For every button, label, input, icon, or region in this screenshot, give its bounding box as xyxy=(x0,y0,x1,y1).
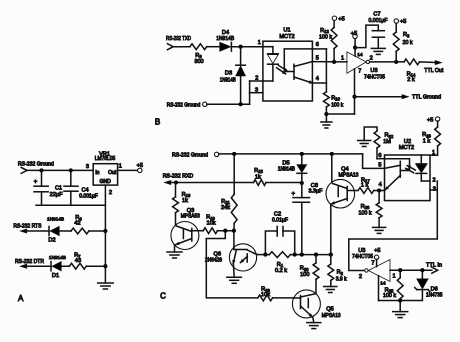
svg-text:D3: D3 xyxy=(225,71,232,77)
svg-text:D2: D2 xyxy=(48,238,55,244)
svg-text:+: + xyxy=(291,191,295,197)
svg-text:20 k: 20 k xyxy=(403,40,413,46)
svg-text:R12: R12 xyxy=(320,28,329,34)
svg-text:RS-232 RXD: RS-232 RXD xyxy=(163,173,194,179)
svg-text:GND: GND xyxy=(100,179,112,185)
svg-text:In: In xyxy=(95,170,99,176)
svg-text:1: 1 xyxy=(119,163,122,169)
svg-text:U1: U1 xyxy=(283,28,290,34)
svg-text:1: 1 xyxy=(341,55,344,61)
svg-text:74HCT05: 74HCT05 xyxy=(352,254,373,260)
svg-text:2N6426: 2N6426 xyxy=(205,257,222,263)
svg-text:+5: +5 xyxy=(351,31,357,37)
svg-text:6: 6 xyxy=(378,153,381,159)
svg-text:42: 42 xyxy=(74,221,80,227)
svg-text:Q5: Q5 xyxy=(326,306,333,312)
svg-text:+5: +5 xyxy=(400,19,406,25)
svg-text:C: C xyxy=(160,292,166,301)
svg-text:TTL In: TTL In xyxy=(426,263,442,269)
svg-text:+5: +5 xyxy=(338,16,344,22)
svg-text:LM78L05: LM78L05 xyxy=(95,156,116,162)
svg-text:R15: R15 xyxy=(254,168,263,174)
svg-text:43: 43 xyxy=(75,258,81,264)
svg-text:4: 4 xyxy=(379,182,382,188)
svg-text:2: 2 xyxy=(359,274,362,280)
svg-text:R3: R3 xyxy=(403,32,410,38)
svg-text:1N914B: 1N914B xyxy=(220,78,236,84)
svg-text:0.2 k: 0.2 k xyxy=(275,268,287,274)
svg-text:RS-232 DTR: RS-232 DTR xyxy=(15,259,44,265)
svg-text:2: 2 xyxy=(109,190,112,196)
svg-text:+5: +5 xyxy=(427,117,433,123)
svg-text:2: 2 xyxy=(370,55,373,61)
svg-text:R28: R28 xyxy=(361,204,370,210)
svg-text:300: 300 xyxy=(194,59,203,65)
svg-text:100 k: 100 k xyxy=(319,34,332,40)
svg-text:100 k: 100 k xyxy=(331,103,343,109)
svg-text:0.001µF: 0.001µF xyxy=(79,193,98,199)
svg-text:MPSA13: MPSA13 xyxy=(322,313,341,319)
svg-text:C7: C7 xyxy=(373,12,380,18)
svg-text:1 k: 1 k xyxy=(361,183,369,189)
svg-text:1 k: 1 k xyxy=(423,139,431,145)
svg-text:C1: C1 xyxy=(55,185,62,191)
svg-text:Out: Out xyxy=(108,170,117,176)
svg-text:MCT2: MCT2 xyxy=(279,34,294,40)
svg-text:1N914B: 1N914B xyxy=(216,36,234,42)
svg-text:+5: +5 xyxy=(374,248,380,254)
svg-text:24k: 24k xyxy=(221,205,230,211)
svg-text:5: 5 xyxy=(316,55,319,61)
svg-text:14: 14 xyxy=(380,280,386,286)
svg-text:D1: D1 xyxy=(52,273,59,279)
svg-text:RS-232 Ground: RS-232 Ground xyxy=(167,102,201,108)
svg-text:4: 4 xyxy=(316,76,319,82)
svg-text:5: 5 xyxy=(378,163,381,169)
svg-text:R10: R10 xyxy=(331,95,340,101)
svg-text:3: 3 xyxy=(86,164,89,170)
svg-text:100 k: 100 k xyxy=(383,293,396,299)
svg-text:7: 7 xyxy=(358,69,361,75)
svg-text:1: 1 xyxy=(258,40,261,46)
svg-text:3.3µF: 3.3µF xyxy=(309,189,324,195)
svg-text:1N4735: 1N4735 xyxy=(426,293,443,299)
svg-text:B: B xyxy=(155,118,160,127)
svg-text:D6: D6 xyxy=(431,286,438,292)
svg-text:RS-232 Ground: RS-232 Ground xyxy=(18,161,54,167)
svg-text:TTL Ground: TTL Ground xyxy=(412,95,441,101)
svg-text:2: 2 xyxy=(255,76,258,82)
svg-text:1k: 1k xyxy=(182,198,188,204)
svg-text:R23: R23 xyxy=(422,132,431,138)
svg-text:+5: +5 xyxy=(137,163,143,169)
svg-text:1k: 1k xyxy=(255,175,261,181)
svg-text:14: 14 xyxy=(357,52,363,58)
svg-text:1N914B: 1N914B xyxy=(278,166,296,172)
svg-text:6: 6 xyxy=(316,42,319,48)
svg-text:R2: R2 xyxy=(337,270,344,276)
svg-text:100: 100 xyxy=(300,272,309,278)
svg-text:10k: 10k xyxy=(206,220,215,226)
svg-text:A: A xyxy=(18,294,24,303)
svg-text:RS-232 RTS: RS-232 RTS xyxy=(13,224,41,230)
svg-text:TTL Out: TTL Out xyxy=(424,68,443,74)
svg-text:U3: U3 xyxy=(370,68,377,74)
svg-text:7: 7 xyxy=(371,261,374,267)
svg-text:100 k: 100 k xyxy=(359,210,372,216)
svg-text:0.01µF: 0.01µF xyxy=(272,217,289,223)
svg-text:2: 2 xyxy=(433,177,436,183)
svg-text:MPSA13: MPSA13 xyxy=(339,172,359,178)
svg-text:RS-232 TXD: RS-232 TXD xyxy=(166,36,191,42)
svg-text:2 k: 2 k xyxy=(407,77,415,83)
svg-text:1N914B: 1N914B xyxy=(49,255,66,261)
svg-text:1N914B: 1N914B xyxy=(47,217,64,223)
svg-text:3.9 k: 3.9 k xyxy=(336,277,347,283)
svg-text:RS-232 Ground: RS-232 Ground xyxy=(172,152,208,158)
svg-text:R20: R20 xyxy=(300,266,309,272)
svg-text:MPSA53: MPSA53 xyxy=(181,214,200,220)
svg-text:1M: 1M xyxy=(383,139,391,145)
svg-text:+: + xyxy=(34,179,38,185)
svg-text:3: 3 xyxy=(255,88,258,94)
svg-text:74HCT05: 74HCT05 xyxy=(364,75,385,81)
svg-text:0.001µF: 0.001µF xyxy=(369,18,389,24)
svg-text:10k: 10k xyxy=(261,292,270,298)
svg-text:MCT2: MCT2 xyxy=(399,145,414,151)
svg-text:22µF: 22µF xyxy=(50,192,64,198)
svg-text:1: 1 xyxy=(393,273,396,279)
